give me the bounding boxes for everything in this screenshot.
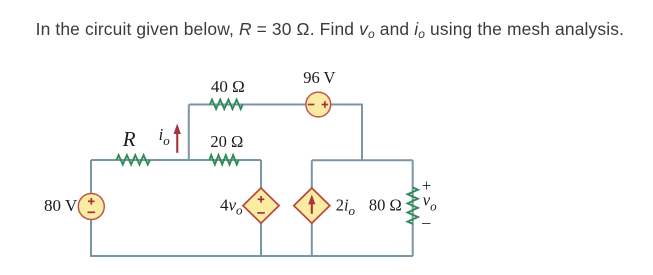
wire: bottom rail <box>90 255 413 257</box>
wire: right box top rail <box>312 159 413 161</box>
resistor 20 ohm zigzag <box>209 155 238 164</box>
problem statement <box>36 21 624 40</box>
voltage source 96 V <box>306 92 331 117</box>
svg-text:vo: vo <box>423 191 437 214</box>
wire: top branch with 96V drop on right <box>189 105 362 161</box>
current arrow io <box>174 124 181 153</box>
wire: 4vo vertical branch <box>260 160 262 256</box>
svg-text:40 Ω: 40 Ω <box>211 77 245 96</box>
resistor 80 ohm vertical zigzag <box>408 187 418 224</box>
wire: 2io vertical branch <box>311 160 313 256</box>
svg-text:–: – <box>421 212 431 231</box>
wire: left vertical branch <box>90 160 92 256</box>
svg-text:80 Ω: 80 Ω <box>369 196 402 215</box>
voltage source 80 V <box>78 194 104 220</box>
wire: right vertical branch with 80ohm <box>412 160 414 256</box>
svg-text:80 V: 80 V <box>44 196 78 215</box>
dependent source 4vo (diamond) <box>243 188 279 223</box>
wire: node vertical up to top branch <box>188 105 190 161</box>
svg-text:io: io <box>159 125 171 148</box>
resistor R (30 ohm) zigzag <box>117 155 150 164</box>
wire: main horizontal at y=160 from left corner through R and 20ohm <box>91 159 261 161</box>
resistor 40 ohm zigzag <box>210 100 243 109</box>
svg-text:96 V: 96 V <box>303 68 335 87</box>
svg-text:2io: 2io <box>336 196 356 218</box>
dependent current source 2io (diamond) <box>294 188 330 223</box>
svg-text:20 Ω: 20 Ω <box>210 132 243 151</box>
svg-text:R: R <box>122 127 136 151</box>
svg-text:4vo: 4vo <box>220 195 243 217</box>
